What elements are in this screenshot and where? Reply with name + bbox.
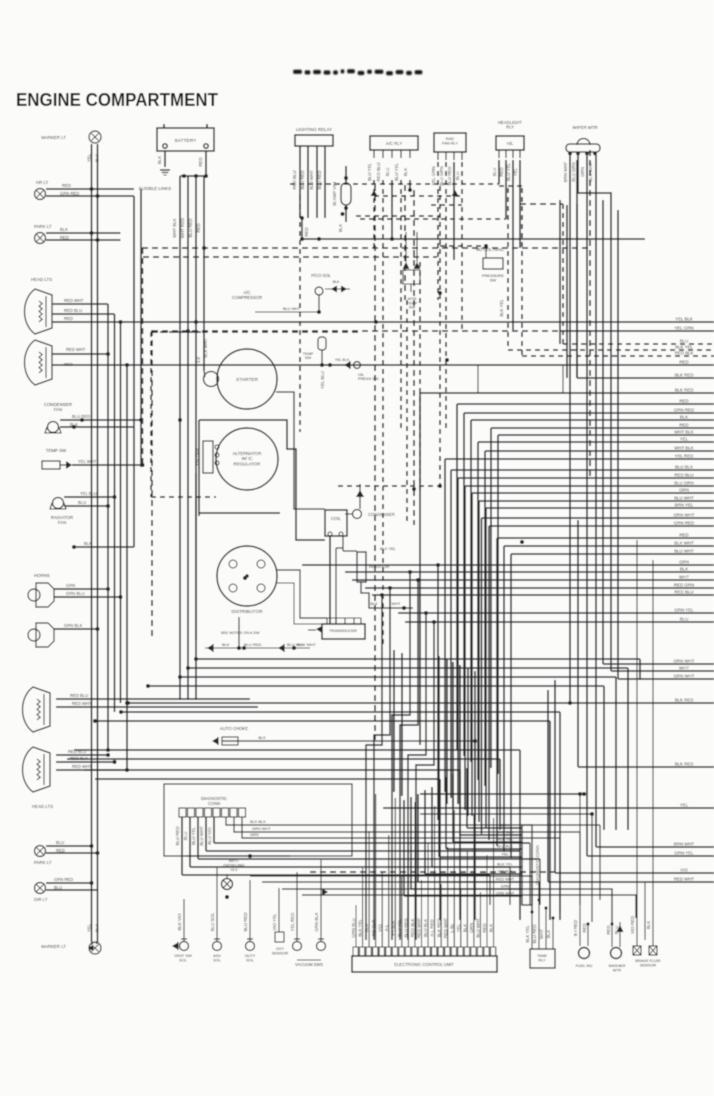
svg-text:WHT BLK: WHT BLK [674, 445, 694, 450]
svg-text:YEL RED: YEL RED [290, 913, 295, 932]
svg-text:BLK WHT: BLK WHT [298, 642, 316, 647]
svg-text:YEL BLK: YEL BLK [675, 316, 693, 321]
svg-text:CONN: CONN [208, 801, 220, 806]
svg-text:PARK LT: PARK LT [34, 860, 52, 865]
svg-text:SW: SW [490, 277, 497, 282]
svg-text:BLU: BLU [78, 500, 86, 505]
svg-text:BLU YEL: BLU YEL [191, 826, 196, 845]
svg-text:BLU: BLU [56, 840, 64, 845]
svg-text:HEAD LTS: HEAD LTS [31, 277, 52, 282]
svg-text:BRN WHT: BRN WHT [563, 161, 568, 182]
svg-text:GRN BLU: GRN BLU [351, 918, 356, 938]
svg-text:RED: RED [482, 923, 487, 932]
svg-text:VACUUM SWS: VACUUM SWS [295, 962, 323, 967]
svg-text:GRN RED: GRN RED [674, 407, 694, 412]
svg-text:BLU: BLU [183, 832, 188, 841]
svg-text:HEAD LTS: HEAD LTS [32, 804, 53, 809]
svg-text:VIO: VIO [377, 924, 382, 932]
svg-text:FUSIBLE LINKS: FUSIBLE LINKS [139, 186, 171, 191]
svg-text:BLU BLK: BLU BLK [675, 464, 693, 469]
svg-text:STARTER: STARTER [236, 377, 258, 383]
svg-text:GRN BLK: GRN BLK [496, 830, 513, 835]
svg-text:BLK RED: BLK RED [675, 697, 694, 702]
svg-text:CONDENSER: CONDENSER [368, 512, 395, 517]
svg-text:LIGHTING RELAY: LIGHTING RELAY [296, 127, 332, 132]
svg-text:BLU BLK: BLU BLK [497, 844, 513, 849]
svg-text:WHT RED: WHT RED [180, 218, 185, 238]
svg-text:NO COL AVAIL: NO COL AVAIL [476, 247, 505, 252]
svg-text:RLY: RLY [506, 125, 514, 130]
svg-text:BLU RED: BLU RED [532, 924, 537, 943]
svg-text:YEL: YEL [86, 153, 91, 162]
svg-text:BLU GRN: BLU GRN [674, 480, 694, 485]
svg-text:RED: RED [679, 359, 688, 364]
svg-text:RED WHT: RED WHT [674, 876, 695, 881]
svg-text:ELECTRONIC CONTROL UNIT: ELECTRONIC CONTROL UNIT [394, 962, 454, 967]
svg-text:VIO RED: VIO RED [194, 448, 199, 466]
svg-text:WHT: WHT [391, 601, 401, 606]
svg-text:BLU BLK: BLU BLK [423, 919, 428, 937]
svg-text:BLK: BLK [646, 921, 651, 929]
svg-text:BLK: BLK [157, 156, 162, 164]
svg-text:BLK WHT: BLK WHT [674, 540, 694, 545]
svg-text:RED WHT: RED WHT [496, 877, 515, 882]
svg-text:YEL GRN: YEL GRN [674, 325, 693, 330]
svg-text:BLK: BLK [462, 924, 467, 932]
svg-text:WHT BLK: WHT BLK [674, 429, 694, 434]
svg-text:L-BL: L-BL [449, 923, 454, 933]
svg-text:WHT: WHT [539, 929, 544, 939]
svg-text:BLU WHT: BLU WHT [199, 826, 204, 846]
svg-text:VIO BLK: VIO BLK [497, 869, 513, 874]
svg-text:30 AMP VIM: 30 AMP VIM [332, 182, 337, 207]
svg-text:RED: RED [606, 925, 611, 934]
svg-text:GRN RED: GRN RED [674, 520, 694, 525]
svg-text:SENSOR: SENSOR [640, 962, 657, 967]
svg-text:RED: RED [62, 183, 71, 188]
svg-text:SOL: SOL [213, 957, 222, 962]
svg-text:GRN WHT: GRN WHT [496, 891, 515, 896]
svg-text:DIR LT: DIR LT [34, 897, 48, 902]
svg-text:BLK YEL: BLK YEL [525, 925, 530, 943]
svg-text:RED: RED [198, 157, 203, 166]
svg-text:BLK: BLK [258, 735, 266, 740]
svg-text:RED WHT: RED WHT [72, 701, 92, 706]
svg-text:RED WHT: RED WHT [443, 917, 448, 938]
svg-text:GRN RED: GRN RED [60, 191, 79, 196]
svg-text:COMPRESSOR: COMPRESSOR [232, 295, 262, 300]
svg-text:3.0: 3.0 [196, 356, 201, 363]
svg-text:BRN WHT: BRN WHT [674, 841, 695, 846]
svg-text:P/CO SOL: P/CO SOL [311, 273, 331, 278]
svg-text:BLU RED: BLU RED [244, 642, 261, 647]
svg-text:BLU WHT: BLU WHT [476, 918, 481, 938]
svg-text:BLU YEL: BLU YEL [367, 162, 372, 181]
svg-text:BRN YEL: BRN YEL [675, 502, 694, 507]
svg-text:GRN WHT: GRN WHT [674, 673, 695, 678]
svg-text:RED: RED [60, 235, 69, 240]
svg-text:BLU RED: BLU RED [188, 218, 193, 237]
svg-text:GRN WHT: GRN WHT [252, 826, 271, 831]
svg-text:BLU RED: BLU RED [447, 166, 452, 185]
svg-text:HORNS: HORNS [34, 573, 50, 578]
svg-text:BLK: BLK [94, 154, 99, 162]
svg-text:WHT BLK: WHT BLK [172, 218, 177, 238]
svg-text:RED WHT: RED WHT [64, 298, 84, 303]
svg-text:WHT: WHT [679, 574, 689, 579]
svg-text:BLK RED: BLK RED [675, 387, 694, 392]
svg-text:YEL: YEL [680, 802, 689, 807]
svg-text:BLK YEL: BLK YEL [497, 862, 514, 867]
svg-text:RED: RED [196, 223, 201, 232]
svg-text:BLK: BLK [370, 601, 378, 606]
svg-text:RED BLU: RED BLU [64, 308, 82, 313]
svg-text:BLK YEL: BLK YEL [499, 299, 504, 317]
svg-text:YEL: YEL [501, 852, 509, 857]
svg-text:GRN: GRN [66, 583, 75, 588]
svg-text:FAN: FAN [58, 520, 67, 525]
svg-text:MARKER LT: MARKER LT [41, 944, 66, 949]
svg-text:GRN BLK: GRN BLK [64, 623, 83, 628]
svg-text:BLK RED: BLK RED [675, 761, 694, 766]
svg-text:YEL BLU: YEL BLU [80, 491, 97, 496]
svg-text:BLK: BLK [94, 924, 99, 932]
svg-text:BLK: BLK [489, 924, 494, 932]
svg-text:BLU RED: BLU RED [175, 826, 180, 845]
svg-text:BLU: BLU [364, 924, 369, 933]
svg-text:RED BLU: RED BLU [376, 162, 381, 181]
svg-text:MARKER LT: MARKER LT [41, 135, 66, 140]
svg-text:BLK RED: BLK RED [436, 919, 441, 938]
svg-text:BLK BLK: BLK BLK [250, 819, 266, 824]
svg-text:F-I BLK: F-I BLK [390, 920, 395, 935]
svg-text:VIO YEL: VIO YEL [272, 913, 277, 931]
svg-text:GRN RED: GRN RED [54, 877, 73, 882]
svg-text:RED: RED [56, 848, 65, 853]
svg-text:YEL BLK: YEL BLK [335, 358, 350, 362]
svg-text:GRN YEL: GRN YEL [674, 607, 694, 612]
svg-text:RED: RED [679, 532, 688, 537]
svg-text:VIO: VIO [680, 867, 688, 872]
svg-text:REGULATOR: REGULATOR [234, 461, 261, 466]
svg-text:BLU GRN: BLU GRN [439, 166, 444, 186]
svg-text:BLU: BLU [455, 172, 460, 181]
svg-text:GRN: GRN [469, 923, 474, 933]
svg-text:MTR: MTR [613, 967, 622, 972]
svg-text:RED GRN: RED GRN [674, 582, 694, 587]
svg-text:BLU SOL: BLU SOL [210, 912, 215, 931]
svg-text:RED BLU: RED BLU [674, 589, 693, 594]
svg-text:YEL: YEL [86, 923, 91, 932]
svg-text:GRN: GRN [501, 884, 510, 889]
svg-text:BRN: BRN [501, 823, 509, 828]
svg-text:RED: RED [304, 227, 309, 236]
svg-text:AUTO CHOKE: AUTO CHOKE [220, 726, 248, 731]
svg-text:A-L: A-L [384, 924, 389, 931]
svg-text:BLU YEL: BLU YEL [394, 162, 399, 181]
svg-text:VIO RED: VIO RED [630, 916, 635, 934]
svg-text:YEL GRN: YEL GRN [431, 166, 436, 185]
svg-text:GRN: GRN [679, 559, 689, 564]
svg-text:NO CLR: NO CLR [371, 920, 376, 937]
svg-text:RED BLU: RED BLU [70, 693, 88, 698]
svg-text:YEL: YEL [680, 436, 689, 441]
svg-text:BLK: BLK [403, 168, 408, 176]
svg-text:BLU YEL: BLU YEL [397, 918, 402, 937]
svg-text:YEL RED: YEL RED [675, 453, 694, 458]
svg-text:RED BLU: RED BLU [292, 170, 297, 189]
svg-text:YEL BLU: YEL BLU [320, 371, 325, 389]
svg-text:RED YEL: RED YEL [497, 837, 514, 842]
svg-text:H/L: H/L [507, 141, 514, 146]
svg-text:TRANSDUCER: TRANSDUCER [329, 628, 357, 633]
svg-text:BLK: BLK [546, 930, 551, 938]
svg-text:B-I RED: B-I RED [573, 920, 578, 936]
svg-text:BLU WHT: BLU WHT [674, 495, 694, 500]
svg-text:RED: RED [679, 398, 688, 403]
svg-text:COIL: COIL [331, 516, 342, 521]
svg-text:RED WHT: RED WHT [72, 764, 92, 769]
svg-text:WHT: WHT [679, 665, 689, 670]
svg-text:ENGINE COMPARTMENT: ENGINE COMPARTMENT [16, 89, 219, 110]
svg-text:RED: RED [679, 422, 688, 427]
svg-text:GRN WHT: GRN WHT [674, 658, 695, 663]
svg-text:DISTRIBUTOR: DISTRIBUTOR [231, 609, 263, 614]
svg-text:SOL: SOL [179, 957, 188, 962]
svg-text:RED BLK: RED BLK [675, 350, 694, 355]
svg-text:BLK RED: BLK RED [675, 372, 694, 377]
svg-text:RED BLU: RED BLU [674, 472, 693, 477]
svg-text:RED WHT: RED WHT [417, 917, 422, 938]
svg-text:RED WHT: RED WHT [66, 347, 86, 352]
svg-text:BLU: BLU [680, 616, 689, 621]
svg-text:BLU: BLU [385, 168, 390, 177]
svg-text:RED BLK: RED BLK [410, 919, 415, 938]
svg-text:BLK WHT: BLK WHT [203, 338, 208, 358]
svg-text:SW: SW [305, 355, 312, 360]
svg-text:BLU RED: BLU RED [243, 912, 248, 931]
svg-text:GRN: GRN [679, 487, 689, 492]
svg-text:BLU RED: BLU RED [300, 170, 305, 189]
svg-text:BLK: BLK [222, 642, 230, 647]
svg-text:BLU WHT: BLU WHT [283, 307, 301, 311]
svg-text:BLU: BLU [492, 168, 497, 177]
svg-text:SOL: SOL [246, 957, 255, 962]
svg-text:HR LT: HR LT [36, 180, 49, 185]
svg-text:YEL WHT: YEL WHT [78, 459, 97, 464]
svg-text:BLK: BLK [680, 414, 688, 419]
svg-text:SEE NOTES ON A SW: SEE NOTES ON A SW [221, 631, 260, 635]
svg-text:TEMP SW: TEMP SW [46, 448, 67, 453]
svg-text:FAN: FAN [54, 407, 63, 412]
svg-text:SW: SW [409, 305, 416, 310]
svg-text:BLK: BLK [333, 280, 340, 284]
svg-text:BLU RED: BLU RED [317, 170, 322, 189]
svg-text:RED: RED [64, 316, 73, 321]
svg-text:FUEL INJ: FUEL INJ [576, 963, 593, 968]
svg-text:WIPER MTR: WIPER MTR [572, 125, 597, 130]
svg-text:BLK: BLK [680, 566, 688, 571]
svg-text:A/C RLY: A/C RLY [386, 141, 403, 146]
svg-text:GRN WHT: GRN WHT [674, 512, 695, 517]
svg-text:GRN: GRN [250, 832, 259, 837]
svg-text:PARK LT: PARK LT [34, 224, 52, 229]
svg-text:BLU: BLU [54, 885, 62, 890]
svg-text:DIAGNOSTIC CONN: DIAGNOSTIC CONN [535, 845, 540, 885]
svg-text:A-L RED: A-L RED [430, 919, 435, 936]
svg-text:BLK: BLK [84, 541, 92, 546]
svg-text:FAN RLY: FAN RLY [442, 140, 458, 145]
svg-text:BLK: BLK [60, 227, 68, 232]
svg-text:GRN BLK: GRN BLK [314, 912, 319, 931]
svg-text:RLY: RLY [538, 957, 546, 962]
svg-text:BLU WHT: BLU WHT [309, 170, 314, 190]
svg-text:BLK YEL: BLK YEL [358, 919, 363, 937]
svg-text:YEL: YEL [456, 923, 461, 932]
svg-text:BATTERY: BATTERY [175, 138, 197, 144]
svg-text:BLU VIO: BLU VIO [207, 827, 212, 845]
svg-text:BLU GRN: BLU GRN [571, 162, 576, 182]
svg-text:VLV: VLV [230, 867, 238, 872]
svg-text:RED: RED [582, 923, 587, 932]
svg-text:BLK: BLK [338, 224, 343, 232]
svg-text:GRN YEL: GRN YEL [674, 850, 694, 855]
svg-text:BLU WHT: BLU WHT [674, 548, 694, 553]
svg-text:BLK YEL: BLK YEL [675, 344, 693, 349]
svg-text:GRN BLU: GRN BLU [66, 591, 85, 596]
svg-text:BLU RED: BLU RED [404, 918, 409, 937]
svg-text:BLK VIO: BLK VIO [177, 913, 182, 931]
svg-text:SENSOR: SENSOR [272, 950, 289, 955]
svg-text:BLU: BLU [680, 338, 689, 343]
svg-text:GRN: GRN [580, 167, 585, 177]
